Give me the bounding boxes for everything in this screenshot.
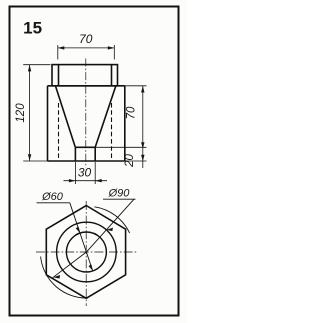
dim 30 line bbox=[64, 180, 108, 182]
svg-text:30: 30 bbox=[78, 166, 92, 180]
dim 120 line bbox=[29, 65, 31, 161]
hidden line right bbox=[111, 103, 113, 160]
underline D90 bbox=[103, 198, 136, 200]
cone left slant bbox=[56, 86, 76, 147]
svg-text:Ø90: Ø90 bbox=[108, 188, 131, 200]
dim line right bbox=[142, 86, 144, 168]
arrow 30 right bbox=[95, 179, 102, 182]
svg-text:70: 70 bbox=[79, 32, 93, 46]
prism right edge bbox=[124, 86, 126, 161]
top band rectangle (cylinder) bbox=[52, 65, 118, 86]
leader D90 bbox=[53, 199, 135, 278]
prism left edge bbox=[47, 86, 49, 161]
dim 120 bottom extension bbox=[23, 160, 47, 162]
svg-text:15: 15 bbox=[23, 19, 42, 38]
dim 70/20 ext middle bbox=[95, 146, 146, 148]
arrow 120 bottom bbox=[28, 154, 31, 161]
circle D90 bbox=[57, 222, 117, 282]
arrow 70right bottom bbox=[141, 142, 144, 149]
circle D60 bbox=[66, 232, 106, 272]
dim 30 ext lines bbox=[75, 162, 95, 184]
svg-text:Ø60: Ø60 bbox=[41, 191, 64, 203]
underline D60 bbox=[37, 202, 70, 204]
svg-text:20: 20 bbox=[124, 154, 136, 168]
construction arc upper right bbox=[94, 207, 129, 233]
dim 70 top extension lines bbox=[58, 45, 115, 60]
svg-text:120: 120 bbox=[15, 103, 27, 123]
centerline vertical bbox=[85, 201, 87, 306]
prism top edge bbox=[48, 85, 125, 87]
hole edge left solid bbox=[58, 65, 60, 86]
arrow D60 lower bbox=[89, 264, 93, 271]
bottom edge bbox=[48, 160, 125, 162]
leader arrowheads bbox=[53, 227, 113, 279]
hidden line left bbox=[58, 103, 60, 160]
arrow D90 upper bbox=[106, 228, 113, 232]
arrow 70right top bbox=[141, 86, 144, 93]
hole edge right solid bbox=[111, 65, 113, 86]
border frame bbox=[10, 7, 179, 316]
arrow 20 bottom bbox=[141, 155, 144, 162]
cone bottom edge bbox=[75, 146, 95, 148]
svg-text:70: 70 bbox=[126, 106, 138, 119]
cone right slant bbox=[95, 86, 116, 147]
arrow 30 left bbox=[69, 179, 76, 182]
centerline front view bbox=[85, 59, 87, 168]
arrow 70top right bbox=[108, 46, 115, 49]
hexagon bbox=[46, 206, 125, 299]
arrow D90 lower bbox=[53, 275, 60, 279]
arrow 120 top bbox=[28, 65, 31, 72]
leader D60 bbox=[70, 203, 93, 271]
dim 20 ext bottom bbox=[125, 160, 147, 162]
construction arc lower left bbox=[41, 257, 88, 298]
dim 70 top line bbox=[58, 47, 115, 49]
arrow D60 upper bbox=[76, 227, 80, 234]
dim 70 right ext top bbox=[125, 85, 147, 87]
hole bottom left vertical bbox=[74, 147, 76, 161]
centerline horizontal bbox=[36, 251, 138, 253]
arrow 70top left bbox=[58, 46, 65, 49]
arrowheads bbox=[28, 46, 145, 182]
hole bottom right vertical bbox=[94, 147, 96, 161]
dim 120 top extension bbox=[23, 64, 50, 66]
